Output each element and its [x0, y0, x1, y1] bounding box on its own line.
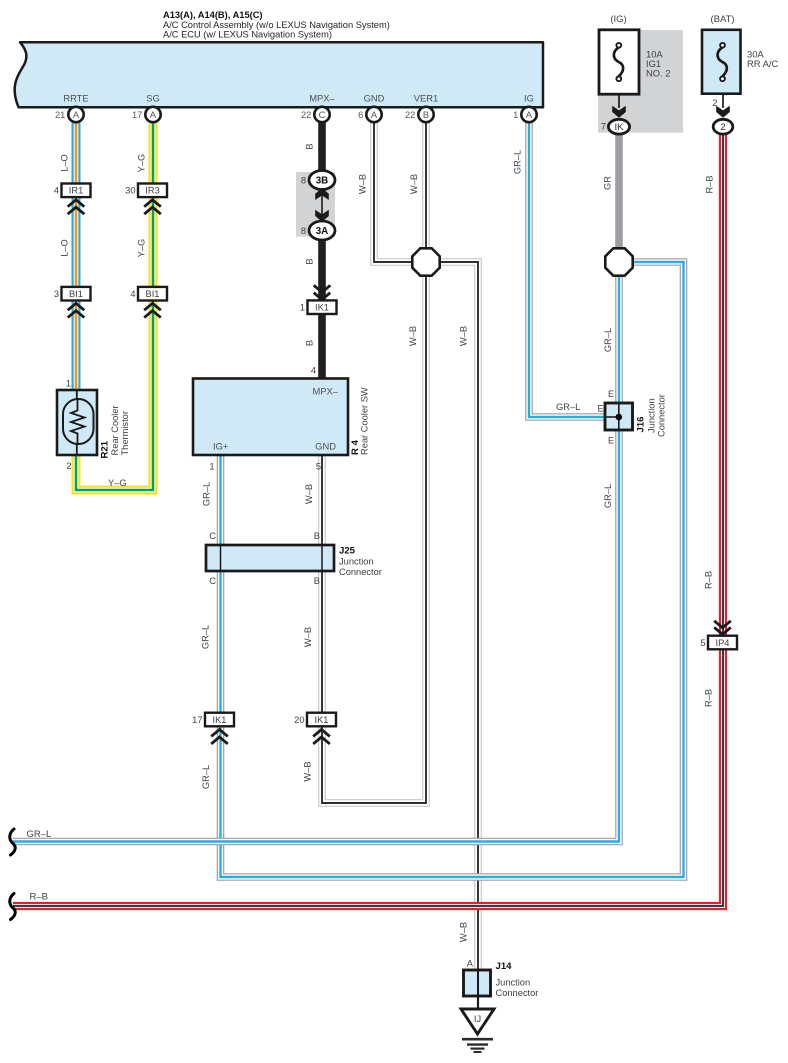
svg-text:BI1: BI1 — [146, 289, 160, 299]
svg-text:GR–L: GR–L — [202, 482, 212, 506]
svg-text:(IG): (IG) — [610, 14, 626, 25]
svg-text:GND: GND — [315, 441, 336, 452]
svg-text:C: C — [209, 531, 216, 541]
svg-text:17: 17 — [192, 715, 202, 725]
svg-text:IP4: IP4 — [716, 638, 730, 648]
svg-text:Y–G: Y–G — [137, 239, 147, 258]
svg-text:L–O: L–O — [60, 154, 70, 172]
svg-text:SG: SG — [146, 93, 160, 104]
svg-text:1: 1 — [66, 379, 71, 389]
svg-text:B: B — [423, 110, 429, 120]
svg-text:E: E — [597, 404, 603, 414]
svg-text:J16: J16 — [636, 416, 647, 432]
svg-text:RR A/C: RR A/C — [747, 58, 778, 69]
svg-text:5: 5 — [316, 462, 321, 472]
svg-text:B: B — [314, 576, 320, 586]
svg-text:17: 17 — [132, 110, 142, 120]
svg-text:W–B: W–B — [358, 174, 368, 194]
svg-text:Junction: Junction — [339, 557, 374, 567]
svg-text:B: B — [305, 143, 315, 149]
svg-text:R–B: R–B — [30, 892, 48, 903]
svg-text:Rear Cooler: Rear Cooler — [110, 405, 120, 455]
svg-text:BI1: BI1 — [69, 289, 83, 299]
svg-text:NO. 2: NO. 2 — [646, 68, 671, 79]
svg-text:B: B — [305, 258, 315, 264]
svg-text:MPX–: MPX– — [309, 93, 335, 104]
svg-text:GR–L: GR–L — [201, 765, 211, 789]
svg-text:2: 2 — [720, 122, 725, 133]
svg-text:IK1: IK1 — [213, 715, 227, 725]
svg-text:E: E — [608, 436, 614, 446]
svg-text:RRTE: RRTE — [63, 93, 88, 104]
svg-text:A: A — [526, 110, 533, 120]
svg-text:W–B: W–B — [409, 174, 419, 194]
svg-text:MPX–: MPX– — [312, 386, 338, 397]
svg-text:IK1: IK1 — [315, 715, 329, 725]
svg-text:C: C — [209, 576, 216, 586]
svg-text:GR: GR — [603, 176, 613, 190]
svg-text:E: E — [608, 389, 614, 399]
svg-text:A/C Control Assembly (w/o LEXU: A/C Control Assembly (w/o LEXUS Navigati… — [163, 20, 390, 30]
svg-text:J25: J25 — [339, 546, 356, 557]
svg-text:7: 7 — [601, 122, 606, 132]
svg-text:GR–L: GR–L — [603, 328, 613, 352]
svg-text:4: 4 — [54, 186, 59, 196]
svg-text:W–B: W–B — [304, 484, 314, 504]
svg-text:1: 1 — [300, 303, 305, 313]
svg-text:2: 2 — [712, 98, 717, 108]
svg-text:B: B — [305, 340, 315, 346]
svg-text:W–B: W–B — [408, 326, 418, 346]
svg-text:VER1: VER1 — [414, 93, 439, 104]
svg-text:22: 22 — [301, 110, 311, 120]
svg-text:W–B: W–B — [303, 627, 313, 647]
svg-text:20: 20 — [294, 715, 304, 725]
svg-text:Junction: Junction — [496, 978, 531, 988]
svg-text:B: B — [314, 531, 320, 541]
svg-text:GR–L: GR–L — [27, 829, 52, 840]
svg-text:5: 5 — [700, 638, 705, 648]
svg-text:IK1: IK1 — [315, 303, 329, 313]
svg-text:Thermistor: Thermistor — [120, 411, 130, 455]
svg-text:Y–G: Y–G — [137, 154, 147, 173]
svg-text:C: C — [319, 110, 326, 120]
svg-text:IK: IK — [614, 122, 624, 133]
svg-text:A/C ECU (w/ LEXUS Navigation S: A/C ECU (w/ LEXUS Navigation System) — [163, 30, 332, 40]
svg-text:Connector: Connector — [657, 394, 667, 437]
svg-text:GR–L: GR–L — [603, 484, 613, 508]
svg-text:22: 22 — [405, 110, 415, 120]
svg-text:IR3: IR3 — [145, 186, 159, 196]
svg-text:(BAT): (BAT) — [710, 14, 734, 25]
svg-text:6: 6 — [358, 110, 363, 120]
svg-text:1: 1 — [209, 462, 214, 472]
svg-text:8: 8 — [301, 175, 306, 185]
svg-text:W–B: W–B — [459, 326, 469, 346]
svg-text:Connector: Connector — [339, 567, 382, 577]
svg-text:2: 2 — [66, 461, 71, 471]
svg-text:3B: 3B — [316, 175, 329, 186]
svg-text:4: 4 — [311, 366, 316, 376]
svg-text:R–B: R–B — [705, 175, 715, 193]
svg-text:W–B: W–B — [303, 761, 313, 781]
svg-text:W–B: W–B — [459, 922, 469, 942]
svg-text:L–O: L–O — [60, 239, 70, 257]
svg-text:IG+: IG+ — [213, 441, 229, 452]
svg-text:GND: GND — [364, 93, 385, 104]
svg-text:Rear Cooler SW: Rear Cooler SW — [360, 387, 370, 455]
svg-text:R–B: R–B — [704, 689, 714, 707]
svg-text:30: 30 — [125, 186, 135, 196]
svg-text:1: 1 — [513, 110, 518, 120]
svg-text:J14: J14 — [496, 961, 513, 972]
svg-text:Connector: Connector — [496, 988, 539, 998]
svg-text:21: 21 — [55, 110, 65, 120]
svg-text:4: 4 — [130, 289, 135, 299]
svg-text:3: 3 — [54, 289, 59, 299]
svg-text:8: 8 — [301, 226, 306, 236]
svg-text:IJ: IJ — [474, 1014, 481, 1024]
svg-text:Junction: Junction — [647, 398, 657, 433]
svg-text:IR1: IR1 — [69, 186, 83, 196]
svg-text:GR–L: GR–L — [513, 150, 523, 174]
svg-text:A: A — [467, 959, 474, 969]
svg-text:A: A — [371, 110, 378, 120]
svg-text:IG: IG — [524, 93, 534, 104]
svg-text:A: A — [150, 110, 157, 120]
svg-text:3A: 3A — [316, 226, 329, 237]
svg-text:A: A — [73, 110, 80, 120]
svg-text:GR–L: GR–L — [556, 402, 580, 412]
svg-text:A13(A), A14(B), A15(C): A13(A), A14(B), A15(C) — [163, 10, 263, 20]
svg-text:Y–G: Y–G — [108, 478, 127, 488]
svg-text:R–B: R–B — [704, 571, 714, 589]
svg-text:GR–L: GR–L — [201, 625, 211, 649]
